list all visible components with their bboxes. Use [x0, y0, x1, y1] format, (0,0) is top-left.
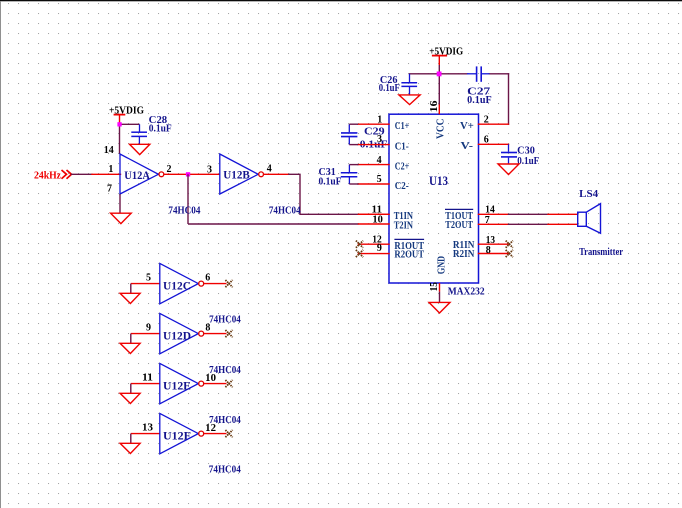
ground below U13 [429, 302, 450, 313]
value label C29 0.1uF (drawn under wire) [360, 126, 388, 150]
ground U12D input [120, 343, 140, 353]
svg-text:11: 11 [142, 372, 153, 383]
no-ERC cross pin 12 [356, 241, 363, 248]
svg-text:1: 1 [377, 115, 382, 126]
svg-text:0.1uF: 0.1uF [517, 156, 539, 167]
svg-text:7: 7 [107, 184, 112, 195]
U13 left pin numbers [372, 115, 383, 255]
wire power rail down to U12A pin 14 [119, 124, 121, 154]
no-ERC cross pin 9 [356, 250, 363, 257]
wire T1OUT to speaker [509, 213, 578, 215]
wire pin15 to ground [439, 292, 441, 303]
svg-text:74HC04: 74HC04 [269, 205, 301, 216]
svg-text:10: 10 [372, 214, 383, 225]
svg-text:5: 5 [146, 272, 151, 283]
power +5VDIG (U13) [429, 47, 463, 74]
speaker LS4 [578, 204, 601, 234]
ground below C28 [130, 144, 150, 154]
junction node [186, 172, 190, 176]
svg-text:74HC04: 74HC04 [209, 365, 241, 376]
ground below C26 [399, 95, 420, 105]
svg-text:C2+: C2+ [395, 161, 410, 173]
svg-text:74HC04: 74HC04 [209, 415, 241, 426]
inverter U12D (74HC04) [131, 313, 227, 353]
U13 pin names left [394, 120, 425, 260]
inverter U12C (74HC04) [131, 263, 227, 303]
svg-text:3: 3 [377, 134, 382, 145]
wire T2OUT to speaker [509, 223, 578, 225]
svg-text:7: 7 [485, 215, 490, 226]
capacitor C26 [401, 74, 417, 95]
inverter U12A (74HC04) [120, 154, 164, 194]
power +5VDIG (U12A) [109, 105, 144, 124]
capacitor C27 [467, 66, 490, 81]
wire junction down [187, 174, 189, 224]
wire power rail to C28 [120, 123, 140, 125]
svg-text:V-: V- [461, 140, 474, 152]
no-ERC cross pin 8 [506, 250, 513, 257]
no-ERC cross U12D out [225, 330, 232, 337]
svg-text:LS4: LS4 [579, 188, 598, 200]
svg-text:U12E: U12E [163, 380, 191, 392]
wire to U13 T2IN [188, 223, 359, 225]
svg-text:74HC04: 74HC04 [209, 464, 241, 475]
svg-text:13: 13 [142, 422, 153, 433]
no-ERC cross U12E out [225, 380, 232, 387]
svg-text:6: 6 [205, 272, 210, 283]
svg-text:0.1uF: 0.1uF [319, 176, 342, 187]
svg-text:U12B: U12B [223, 170, 250, 182]
svg-text:16: 16 [429, 101, 440, 113]
capacitor C29 [341, 124, 357, 144]
svg-text:R2OUT: R2OUT [394, 248, 424, 260]
inverter U12B (74HC04) [220, 154, 264, 194]
ground below U12A [111, 213, 132, 223]
svg-text:0.1uF: 0.1uF [149, 124, 172, 135]
U13 left pins [358, 124, 389, 253]
no-ERC cross U12F out [225, 430, 232, 437]
svg-text:9: 9 [146, 322, 151, 333]
svg-text:U12F: U12F [163, 430, 191, 442]
wire U12A pin7 to ground [119, 194, 121, 213]
svg-text:1: 1 [108, 164, 113, 175]
svg-text:4: 4 [267, 164, 272, 175]
svg-text:U12C: U12C [163, 280, 191, 292]
wire top power rail [410, 74, 509, 124]
svg-text:0.1uF: 0.1uF [379, 83, 400, 94]
svg-text:MAX232: MAX232 [448, 286, 485, 298]
ground U12C input [120, 293, 140, 303]
svg-text:9: 9 [377, 243, 382, 254]
junction at power rail [437, 72, 442, 77]
capacitor C30 [501, 144, 517, 164]
svg-text:14: 14 [104, 145, 114, 156]
no-ERC cross U12C out [225, 280, 232, 287]
wire C31 stubs [349, 165, 358, 184]
svg-text:T2OUT: T2OUT [445, 219, 473, 231]
svg-text:3: 3 [207, 165, 212, 176]
inverter U12E (74HC04) [131, 363, 227, 403]
svg-text:C1-: C1- [395, 141, 409, 153]
no-ERC cross pin 13 [506, 241, 513, 248]
left window border [0, 1, 1, 508]
svg-text:U12D: U12D [163, 330, 191, 342]
U13 pin names right [445, 120, 474, 260]
svg-text:2: 2 [484, 114, 489, 125]
svg-text:15: 15 [429, 282, 440, 291]
ground U12F input [120, 443, 140, 453]
svg-text:4: 4 [377, 155, 382, 166]
overline T1OUT [445, 208, 473, 210]
svg-text:C30: C30 [517, 146, 535, 157]
top window border [0, 0, 682, 1]
overline R1OUT [394, 238, 424, 240]
svg-text:U12A: U12A [124, 170, 150, 182]
svg-text:VCC: VCC [435, 119, 446, 140]
svg-text:2: 2 [167, 164, 172, 175]
ground U12E input [120, 393, 140, 403]
U13 right pins [479, 124, 509, 253]
svg-text:Transmitter: Transmitter [579, 247, 623, 258]
port 24kHz [62, 170, 72, 179]
svg-text:R2IN: R2IN [453, 248, 475, 260]
svg-text:C2-: C2- [395, 180, 409, 192]
U13 pin 16 stub [438, 105, 440, 115]
wire U12A out to U12B in [164, 173, 220, 175]
capacitor C28 [131, 124, 147, 144]
svg-text:8: 8 [486, 245, 491, 256]
wire C29 stubs [349, 124, 358, 144]
svg-text:5: 5 [377, 174, 382, 185]
ground below C30 [498, 164, 519, 175]
svg-text:74HC04: 74HC04 [209, 314, 241, 325]
inverter U12F (74HC04) [131, 413, 227, 453]
svg-text:C1+: C1+ [395, 120, 410, 132]
U13 pin 15 stub [439, 283, 441, 292]
IC U13 MAX232 body [389, 114, 479, 283]
wire net 24kHz to U12A [72, 173, 121, 175]
U13 right pin numbers [484, 114, 495, 256]
svg-text:V+: V+ [460, 120, 474, 132]
svg-text:0.1uF: 0.1uF [467, 95, 492, 106]
junction at U12A power [117, 122, 121, 126]
svg-text:GND: GND [437, 256, 448, 275]
svg-text:6: 6 [484, 135, 489, 146]
svg-text:24kHz: 24kHz [34, 170, 61, 181]
wire U12B out [264, 174, 389, 214]
svg-text:74HC04: 74HC04 [168, 205, 200, 216]
svg-text:T2IN: T2IN [394, 219, 413, 231]
svg-text:U13: U13 [429, 174, 448, 188]
capacitor C31 [341, 165, 358, 185]
